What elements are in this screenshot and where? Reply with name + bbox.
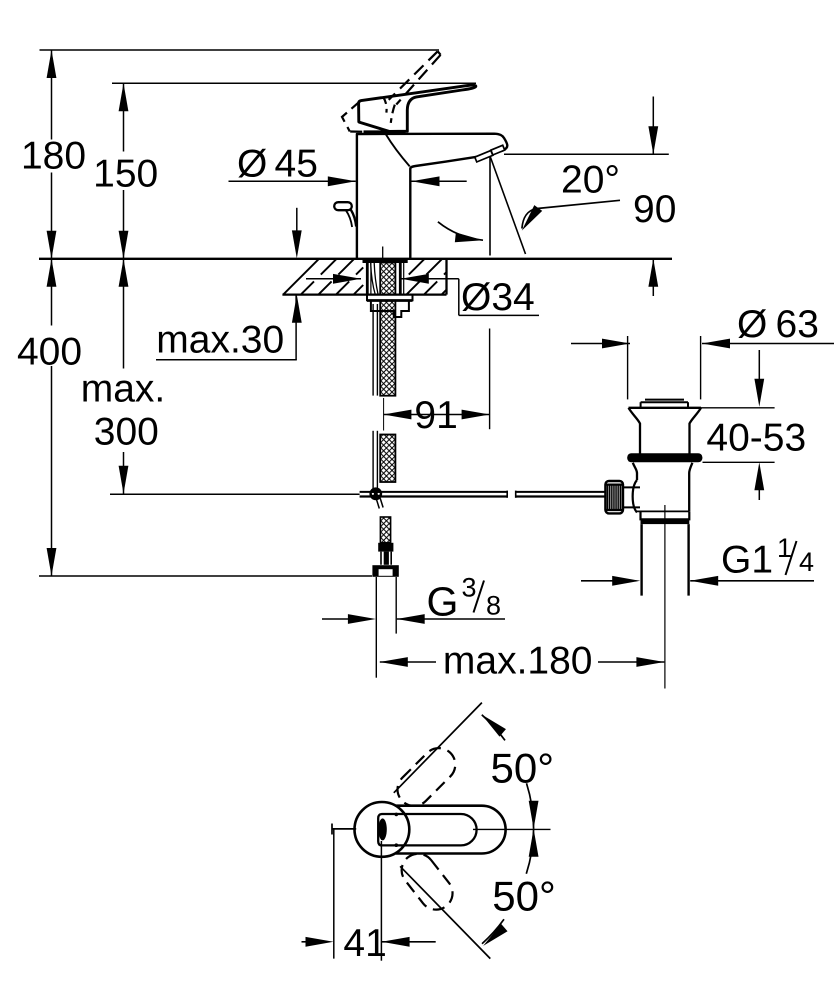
- node arc-50-upper: [482, 715, 505, 741]
- wire rod-right: [516, 491, 606, 493]
- svg-text:3: 3: [462, 573, 477, 603]
- wire: [445, 259, 447, 295]
- dim dia34: [306, 278, 361, 280]
- wire: [382, 247, 384, 259]
- svg-text:max.: max.: [81, 368, 166, 411]
- node hose-collar: [372, 565, 398, 577]
- dim G3/8: [322, 618, 351, 620]
- wire: [490, 156, 526, 254]
- node topview-body-circle: [355, 802, 410, 857]
- svg-text:300: 300: [94, 411, 159, 454]
- node pull-rod: [372, 304, 374, 396]
- svg-text:50°: 50°: [492, 873, 556, 920]
- node hose-end-fitting: [378, 543, 393, 552]
- svg-text:Ø34: Ø34: [461, 276, 535, 319]
- node counter-hatch: [283, 259, 319, 295]
- node counter-top: [39, 258, 672, 260]
- node hose-upper: [380, 263, 395, 396]
- svg-text:50°: 50°: [491, 745, 555, 792]
- node lever-handle: [359, 85, 476, 131]
- dim 41: [333, 829, 335, 959]
- wire: [504, 153, 669, 155]
- svg-text:Ø: Ø: [237, 143, 267, 186]
- wire: [386, 134, 410, 166]
- wire: [364, 130, 406, 133]
- node hose-mid: [380, 435, 395, 483]
- node aerator: [475, 150, 493, 161]
- dim max180: [380, 661, 436, 663]
- svg-text:91: 91: [414, 394, 457, 437]
- node angle-arc-20: [438, 222, 483, 240]
- dim 91: [489, 329, 491, 430]
- node leader-20deg: [522, 200, 620, 228]
- node mounting-nut: [367, 295, 413, 300]
- svg-text:45: 45: [275, 143, 318, 186]
- svg-text:40-53: 40-53: [706, 417, 806, 460]
- node shank-sleeves: [366, 263, 369, 295]
- node hose-lower: [380, 517, 390, 543]
- svg-text:G1: G1: [721, 539, 773, 582]
- node topview-outline: [396, 806, 506, 854]
- wire: [40, 49, 440, 51]
- svg-text:90: 90: [633, 188, 676, 231]
- dim 90: [652, 97, 654, 155]
- dim 40-53: [701, 407, 775, 409]
- dim G1-1/4: [581, 580, 615, 582]
- node drain-cap: [645, 399, 684, 401]
- node knob-stem: [623, 486, 640, 488]
- svg-text:8: 8: [486, 591, 501, 621]
- node arc-50-lower: [526, 829, 533, 874]
- svg-text:1: 1: [777, 533, 792, 563]
- dim 150: [123, 83, 125, 151]
- node pull-rod-2: [372, 431, 374, 489]
- wire: [112, 82, 476, 84]
- wire: [332, 828, 356, 830]
- wire: [394, 703, 482, 793]
- svg-text:180: 180: [21, 135, 86, 178]
- wire: [664, 505, 666, 689]
- node drain-seal: [627, 453, 702, 462]
- svg-text:G: G: [427, 579, 459, 625]
- wire: [383, 398, 385, 431]
- dim max30: [296, 208, 298, 234]
- node base-plate: [363, 258, 408, 263]
- svg-text:400: 400: [17, 331, 82, 374]
- node lever-dashed-up: [391, 741, 462, 812]
- node drain-body: [633, 463, 637, 480]
- svg-text:4: 4: [799, 547, 814, 577]
- svg-text:max.30: max.30: [156, 318, 284, 361]
- node faucet-body: [357, 134, 507, 259]
- svg-text:Ø: Ø: [737, 303, 767, 346]
- node counter-bottom: [282, 293, 446, 295]
- wire: [110, 493, 360, 495]
- dim 180: [51, 50, 53, 140]
- wire: [489, 156, 491, 256]
- dim dia63: [627, 336, 629, 399]
- wire: [400, 866, 490, 958]
- wire: [39, 575, 372, 577]
- svg-text:20°: 20°: [561, 159, 620, 202]
- node drain-collar: [641, 511, 690, 519]
- node drain-flange: [629, 407, 702, 409]
- wire: [371, 263, 376, 295]
- svg-text:41: 41: [343, 922, 386, 965]
- node lever-dashed-down: [395, 847, 459, 916]
- node lever-open-dashed: [389, 51, 438, 100]
- node drain-knob: [605, 481, 623, 513]
- wire: [376, 499, 379, 508]
- node lever-front-tip: [334, 202, 352, 210]
- svg-text:150: 150: [93, 153, 158, 196]
- wire: [375, 577, 377, 678]
- dim dia45: [229, 180, 356, 182]
- node topview-knob: [378, 818, 386, 840]
- svg-text:63: 63: [776, 303, 819, 346]
- node rod-joint: [369, 487, 382, 500]
- wire: [473, 828, 551, 830]
- node topview-lever: [378, 814, 476, 845]
- node pivot-dots: [395, 813, 399, 817]
- node drain-pipe: [640, 524, 642, 596]
- svg-text:max.180: max.180: [443, 640, 593, 683]
- wire rod-left: [360, 491, 508, 493]
